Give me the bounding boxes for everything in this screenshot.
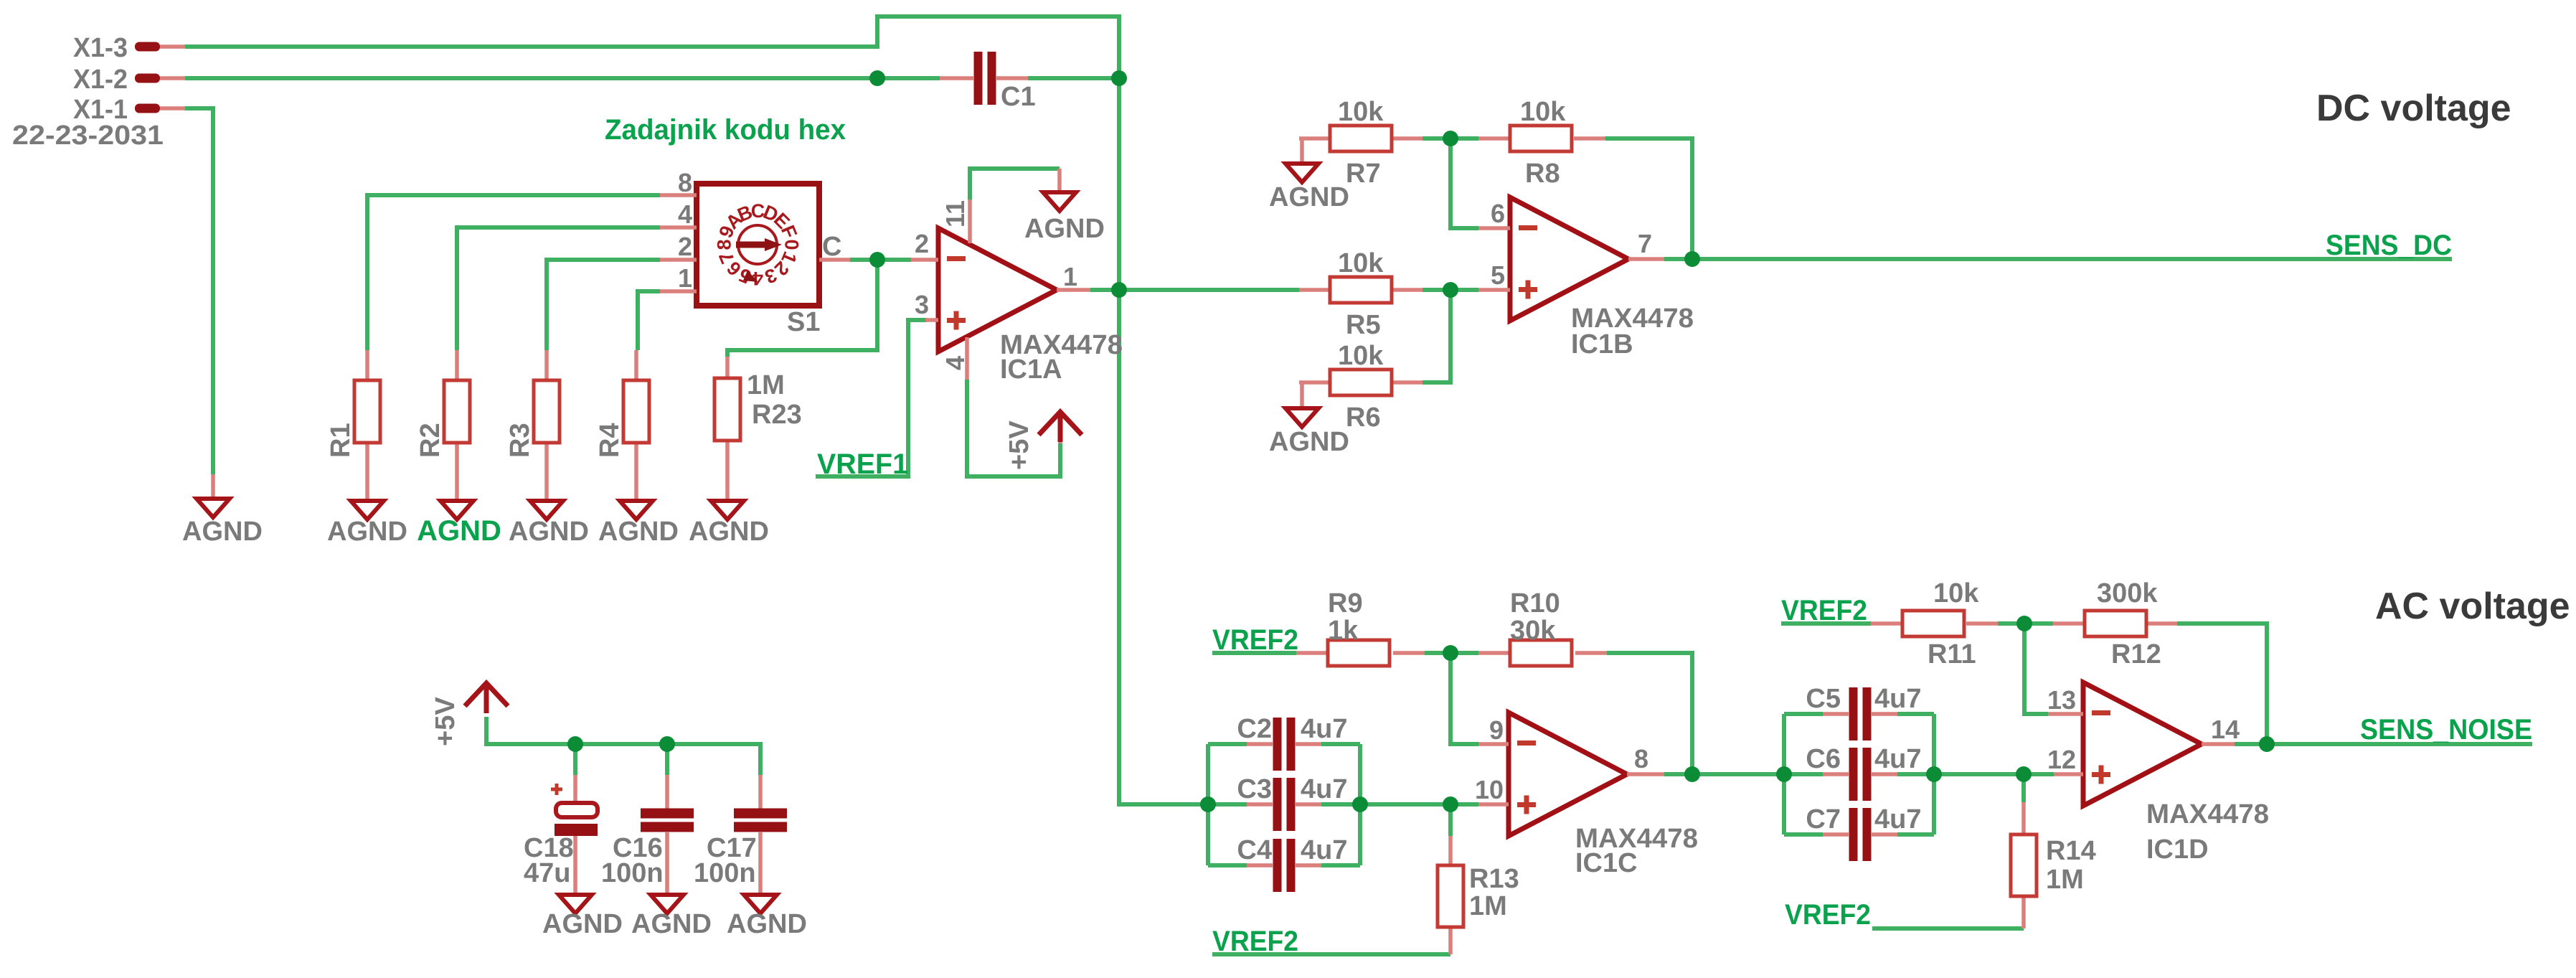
svg-text:6: 6 [1491, 199, 1505, 228]
svg-text:IC1C: IC1C [1575, 848, 1638, 878]
wire IC1D output [2235, 742, 2267, 746]
wire C5 row stubs [1784, 712, 1934, 716]
wire X1-1 down to AGND [185, 108, 213, 474]
wire cap block C5-C7 left rail [1782, 714, 1786, 834]
svg-text:R13: R13 [1469, 864, 1519, 894]
ground AGND under R23 [711, 501, 744, 519]
svg-text:C6: C6 [1806, 744, 1841, 774]
wire R5 to IC1B pin5 [1423, 288, 1478, 292]
svg-text:11: 11 [940, 200, 970, 227]
svg-text:4: 4 [678, 199, 692, 229]
svg-text:4u7: 4u7 [1874, 744, 1921, 774]
svg-text:+5V: +5V [430, 697, 461, 746]
svg-text:9: 9 [1489, 715, 1504, 745]
svg-text:AGND: AGND [417, 515, 501, 547]
svg-text:7: 7 [1638, 229, 1652, 258]
svg-text:IC1D: IC1D [2146, 834, 2209, 865]
ground AGND under R7 [1285, 164, 1318, 182]
svg-text:AGND: AGND [598, 517, 679, 547]
svg-text:C1: C1 [1001, 82, 1036, 112]
svg-text:IC1B: IC1B [1571, 329, 1633, 359]
svg-text:R2: R2 [415, 423, 445, 458]
wire net X1-3 / C1 right / main vertical bus to AC chain [185, 17, 1208, 804]
wire VREF2 under R14 [1872, 926, 2024, 931]
svg-text:22-23-2031: 22-23-2031 [12, 121, 164, 151]
svg-text:AGND: AGND [542, 909, 623, 939]
wire cap block C2-C4 right rail [1358, 744, 1362, 865]
svg-text:4u7: 4u7 [1301, 774, 1347, 804]
wire C1 right to main bus [1028, 76, 1119, 80]
svg-text:8: 8 [714, 239, 735, 250]
svg-text:100n: 100n [601, 858, 664, 888]
ground AGND under C18 [559, 895, 592, 913]
svg-text:R5: R5 [1346, 310, 1381, 340]
wire SENS_DC net [1692, 257, 2452, 261]
svg-text:R23: R23 [752, 400, 802, 430]
svg-text:AGND: AGND [1269, 182, 1349, 212]
ground AGND under R1 [351, 501, 384, 519]
svg-text:X1-2: X1-2 [73, 65, 128, 95]
svg-text:+5V: +5V [1004, 420, 1034, 470]
wire S1 pin1 to R4 [638, 291, 660, 350]
svg-text:13: 13 [2047, 685, 2076, 715]
svg-text:C3: C3 [1237, 774, 1272, 804]
svg-text:5: 5 [1491, 260, 1505, 290]
connector pin X1-3 [135, 42, 160, 52]
svg-text:R4: R4 [595, 423, 625, 458]
svg-text:10k: 10k [1338, 97, 1384, 127]
power +5V rail arrow [465, 683, 508, 713]
svg-text:1: 1 [678, 263, 692, 293]
wire S1 pin2 to R3 [547, 260, 660, 350]
resistor R3 [544, 350, 549, 501]
svg-text:AGND: AGND [1024, 214, 1105, 244]
capacitor C16 [665, 775, 669, 895]
svg-text:AGND: AGND [1269, 427, 1349, 457]
resistor R14 [2021, 802, 2026, 928]
op-amp IC1A [938, 228, 1057, 352]
resistor R12 [2053, 621, 2177, 626]
rotary switch S1 [660, 184, 850, 306]
svg-text:C7: C7 [1806, 804, 1841, 834]
svg-text:AGND: AGND [631, 909, 712, 939]
capacitor C18 polarized [573, 775, 577, 895]
capacitor C6 [1823, 772, 1897, 776]
wire node down to IC1C pin9 [1450, 653, 1478, 744]
wire C4 row stubs [1208, 863, 1360, 867]
resistor R4 [634, 350, 638, 501]
wire R13 top [1448, 804, 1453, 836]
svg-text:Zadajnik kodu hex: Zadajnik kodu hex [605, 114, 846, 146]
svg-text:VREF2: VREF2 [1781, 595, 1867, 626]
svg-text:10k: 10k [1338, 248, 1384, 278]
wire C16 drop [665, 744, 669, 775]
svg-text:10: 10 [1475, 775, 1504, 804]
svg-text:VREF1: VREF1 [817, 448, 908, 480]
wire R11 to node [1998, 621, 2024, 626]
resistor R6 [1299, 382, 1423, 408]
wire node 6 down to IC1B pin6 [1450, 138, 1478, 228]
svg-text:4u7: 4u7 [1301, 835, 1347, 865]
svg-text:SENS_DC: SENS_DC [2326, 230, 2452, 261]
ground AGND under C16 [651, 895, 684, 913]
svg-text:C4: C4 [1237, 835, 1272, 865]
ground AGND under R2 [440, 501, 473, 519]
svg-text:47u: 47u [524, 858, 570, 888]
svg-text:AGND: AGND [182, 517, 263, 547]
wire node 5 down to R6 [1423, 290, 1450, 382]
capacitor C17 [758, 775, 763, 895]
capacitor C7 [1823, 832, 1897, 837]
svg-text:R7: R7 [1346, 159, 1381, 189]
op-amp IC1D [2083, 682, 2202, 806]
svg-text:AGND: AGND [727, 909, 807, 939]
resistor R7 [1299, 138, 1423, 164]
svg-text:C2: C2 [1237, 714, 1272, 744]
wire node to R12 [2024, 621, 2053, 626]
svg-text:4u7: 4u7 [1874, 684, 1921, 714]
capacitor C4 [1247, 863, 1321, 867]
svg-text:R10: R10 [1510, 588, 1560, 619]
svg-text:X1-3: X1-3 [73, 33, 128, 63]
svg-text:8: 8 [1634, 744, 1648, 774]
svg-text:8: 8 [678, 168, 692, 197]
svg-text:300k: 300k [2097, 578, 2158, 608]
svg-text:MAX4478: MAX4478 [2146, 799, 2269, 829]
wire R10 feedback to IC1C output [1607, 653, 1692, 774]
svg-text:1: 1 [1063, 262, 1077, 291]
svg-text:R12: R12 [2111, 639, 2161, 669]
resistor R13 [1448, 836, 1453, 954]
ground AGND at IC1A pin11 [1057, 169, 1062, 192]
op-amp IC1C [1509, 713, 1627, 836]
svg-text:14: 14 [2211, 715, 2240, 744]
resistor R5 [1299, 288, 1423, 292]
capacitor C3 [1247, 802, 1321, 807]
resistor R1 [365, 350, 369, 501]
svg-text:R9: R9 [1328, 588, 1363, 619]
capacitor C2 [1247, 742, 1321, 746]
svg-text:10k: 10k [1520, 97, 1566, 127]
op-amp IC1B [1510, 197, 1628, 321]
power +5V at IC1A pin4 [1058, 436, 1062, 443]
ground AGND under X1-1 [211, 474, 215, 499]
svg-text:2: 2 [678, 232, 692, 261]
svg-text:R11: R11 [1928, 639, 1976, 669]
wire R14 top [2021, 774, 2026, 802]
ground AGND under R4 [620, 501, 653, 519]
svg-text:IC1A: IC1A [1000, 354, 1062, 385]
wire C2 row stubs [1208, 742, 1360, 746]
wire R8 feedback to IC1B output [1605, 138, 1692, 259]
svg-text:AGND: AGND [689, 517, 769, 547]
ground AGND under C17 [744, 895, 777, 913]
wire R9 to node R10 [1425, 651, 1478, 655]
wire VREF2 to R9 [1212, 651, 1296, 655]
wire IC1B output [1664, 257, 1692, 261]
svg-text:4u7: 4u7 [1301, 714, 1347, 744]
svg-text:DC voltage: DC voltage [2316, 88, 2511, 129]
wire C18 drop [573, 744, 577, 775]
svg-text:R6: R6 [1346, 403, 1381, 433]
svg-text:R8: R8 [1525, 159, 1560, 189]
svg-text:1M: 1M [2046, 865, 2084, 895]
svg-text:10k: 10k [1933, 578, 1979, 608]
resistor R10 [1478, 651, 1607, 655]
capacitor C5 [1823, 712, 1897, 716]
wire S1 pin4 to R2 [457, 227, 660, 350]
svg-text:S1: S1 [787, 307, 820, 337]
svg-text:1M: 1M [747, 370, 785, 400]
svg-text:VREF2: VREF2 [1212, 624, 1298, 656]
connector pin X1-1 [135, 104, 160, 113]
svg-text:4: 4 [940, 356, 970, 370]
ground AGND under R3 [530, 501, 563, 519]
svg-text:VREF2: VREF2 [1212, 926, 1298, 957]
svg-text:R14: R14 [2046, 836, 2096, 866]
svg-text:C: C [822, 232, 841, 262]
svg-text:2: 2 [915, 229, 929, 258]
wire net X1-2 to C1 left [185, 76, 940, 80]
wire S1 pin8 to R1 [367, 195, 660, 350]
wire SENS_NOISE net [2267, 742, 2532, 746]
wire S1 C output row to IC1A pin2 [850, 258, 911, 262]
svg-text:VREF2: VREF2 [1785, 899, 1871, 931]
connector pin X1-2 [135, 74, 160, 83]
wire cap block C5-C7 right rail [1932, 714, 1936, 834]
wire IC1A pin4 to +5V [967, 380, 1060, 476]
wire VREF2 to R11 [1781, 621, 1871, 626]
svg-text:AGND: AGND [509, 517, 589, 547]
svg-text:R1: R1 [326, 423, 356, 458]
svg-text:R3: R3 [505, 423, 535, 458]
svg-text:AC voltage: AC voltage [2375, 586, 2570, 627]
svg-text:AGND: AGND [327, 517, 407, 547]
svg-text:C5: C5 [1806, 684, 1841, 714]
resistor R23 [725, 357, 730, 501]
ground AGND under R6 [1285, 408, 1318, 427]
wire IC1A output to R5 [1090, 288, 1299, 292]
wire IC1C output row to cap block [1664, 772, 1784, 776]
resistor R11 [1871, 621, 1998, 626]
svg-text:4u7: 4u7 [1874, 804, 1921, 834]
wire VREF2 under R13 [1212, 952, 1450, 956]
wire VREF1 to IC1A pin3 [816, 320, 927, 476]
svg-text:0: 0 [781, 239, 803, 250]
wire node down to IC1D pin13 [2024, 624, 2048, 714]
svg-text:30k: 30k [1510, 616, 1556, 646]
resistor R9 [1296, 651, 1425, 655]
svg-text:3: 3 [915, 290, 929, 319]
svg-text:SENS_NOISE: SENS_NOISE [2360, 714, 2532, 746]
svg-text:1M: 1M [1469, 891, 1507, 921]
wire R12 feedback to IC1D output [2177, 624, 2267, 744]
wire cap block C2-C4 left rail [1206, 744, 1210, 865]
wire IC1A pin11 to AGND [970, 169, 1060, 199]
wire C7 row stubs [1784, 832, 1934, 837]
resistor R8 [1478, 136, 1605, 141]
resistor R2 [455, 350, 459, 501]
capacitor C1 [940, 76, 1028, 80]
wire C3 row through to R13 node and IC1C pin10 [1208, 802, 1478, 807]
svg-text:12: 12 [2047, 745, 2076, 774]
svg-text:1k: 1k [1328, 616, 1359, 646]
wire +5V rail to C18 C16 C17 [486, 717, 760, 775]
svg-text:10k: 10k [1338, 341, 1384, 371]
wire node C down to R23 [727, 260, 877, 357]
wire C6 row through to R14 node and IC1D pin12 [1784, 772, 2054, 776]
svg-text:100n: 100n [694, 858, 756, 888]
wire R7 to node 6 [1423, 136, 1478, 141]
